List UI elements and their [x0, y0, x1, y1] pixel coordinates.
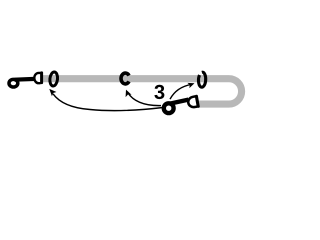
ring right (O-ring, gap top-left) [198, 72, 206, 87]
arrow long (bottom hook to left ring) [53, 94, 163, 111]
arrowhead right [187, 83, 194, 88]
snap hook bottom: clip bulge [187, 95, 200, 110]
ring left (O-ring on strap) [49, 72, 58, 87]
ring middle (C-ring, opening right) [121, 73, 129, 84]
arrow right (bottom hook to right ring) [170, 84, 192, 99]
arrowhead middle [126, 90, 132, 98]
snap hook left: shaft [15, 77, 36, 82]
label 3 [154, 85, 164, 99]
leash strap (grey webbing with U-turn at right) [43, 79, 242, 104]
arrowhead long [49, 89, 56, 96]
snap hook left: clip gate bar [40, 71, 43, 84]
snap hook bottom: eye loop [164, 103, 174, 113]
snap hook left: eye loop [9, 79, 18, 87]
arrow middle (bottom hook to C-ring) [127, 92, 161, 106]
snap hook bottom: clip gate bar [195, 95, 200, 109]
snap hook left: clip bulge [34, 73, 40, 83]
snap hook bottom: shaft [170, 100, 189, 104]
